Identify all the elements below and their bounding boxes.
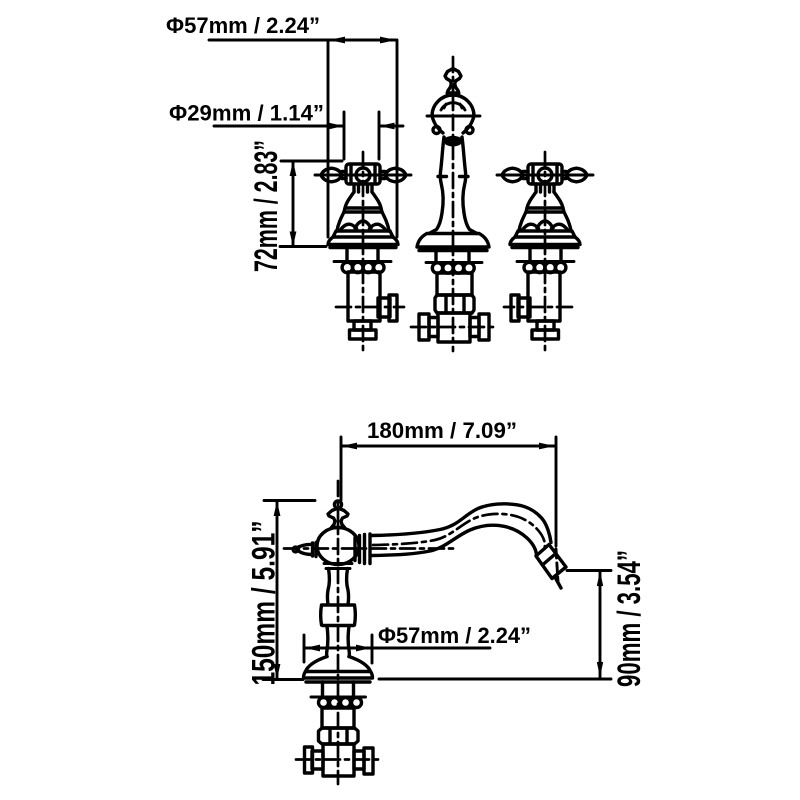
svg-text:72mm / 2.83”: 72mm / 2.83” xyxy=(248,140,284,272)
svg-text:90mm / 3.54”: 90mm / 3.54” xyxy=(611,550,647,687)
svg-text:Φ29mm / 1.14”: Φ29mm / 1.14” xyxy=(169,101,324,126)
svg-text:Φ57mm / 2.24”: Φ57mm / 2.24” xyxy=(166,13,320,38)
svg-text:180mm / 7.09”: 180mm / 7.09” xyxy=(367,418,517,443)
svg-text:Φ57mm / 2.24”: Φ57mm / 2.24” xyxy=(378,623,531,648)
